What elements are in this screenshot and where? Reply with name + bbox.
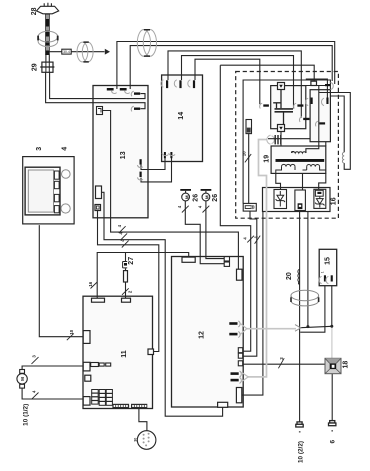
diode symbol left	[276, 191, 285, 207]
top pin box B with dot	[311, 81, 317, 85]
svg-text:30-4: 30-4	[63, 50, 70, 54]
fuse box	[243, 203, 256, 211]
injector 26 A	[180, 189, 191, 201]
slash and label 4 near box12	[247, 236, 254, 243]
wire transformer out to right diode	[319, 173, 326, 189]
ground 6	[329, 421, 336, 426]
MOSFET lower-right pin bar	[299, 117, 309, 122]
svg-text:18: 18	[342, 361, 349, 369]
transformer box 19	[271, 146, 326, 173]
box11 left pin 3	[83, 397, 90, 406]
svg-text:M: M	[184, 195, 189, 199]
slash and label 4 injector A	[182, 206, 189, 213]
box 11 (ECU)	[83, 296, 153, 408]
svg-text:16: 16	[331, 197, 338, 205]
wire choke horizontal to right inner box	[268, 138, 310, 140]
mid box pin element	[298, 203, 303, 209]
box 13 (control unit)	[93, 86, 148, 218]
MOSFET box U	[271, 86, 306, 129]
wire box13 right pin1 to box14 bottom pin1	[141, 158, 165, 170]
slash and label 2 on resistor wire	[122, 288, 129, 295]
svg-text:11: 11	[121, 350, 128, 358]
diode box mid	[295, 190, 306, 211]
box11 interior 3-rect row	[91, 363, 111, 367]
pin arc C	[325, 83, 333, 90]
box13 small square pin	[95, 205, 101, 211]
svg-text:13: 13	[120, 151, 127, 159]
box11 left tall pin	[83, 331, 90, 344]
MOSFET top pin box with dot	[278, 83, 285, 90]
box11 right pin	[148, 349, 154, 355]
wire cluster to box11 left pin	[39, 225, 83, 337]
svg-text:4: 4	[62, 147, 69, 151]
box14 bottom pin bars	[162, 152, 175, 158]
HT cable striped rod	[45, 14, 50, 55]
box15 pins	[319, 275, 333, 283]
diagnostic connector circle	[137, 431, 156, 450]
box13 pin P4	[131, 106, 140, 111]
wire rectifier output to junction dot	[307, 212, 309, 327]
wire box11 strip to diagnostic connector	[139, 409, 147, 431]
wire bus L3	[168, 51, 301, 118]
box13 pin P3	[131, 91, 140, 96]
wire box11 to pump upper	[22, 366, 83, 370]
slash labels on box13 bottom wires	[119, 226, 129, 247]
box13 right pin R2	[137, 172, 143, 180]
right inner box interior pin	[316, 121, 326, 126]
svg-text:27: 27	[128, 257, 135, 265]
gray junction arrow	[295, 325, 301, 332]
grommet B	[137, 30, 156, 57]
svg-text:3: 3	[36, 147, 43, 151]
wire box12 tall pin up to rectifier corner	[242, 212, 263, 396]
svg-text:M: M	[205, 195, 210, 199]
svg-text:16: 16	[88, 281, 93, 286]
damper 18	[325, 358, 341, 373]
wire damper 18 to ground 6	[331, 374, 333, 421]
ground mark dot	[331, 430, 333, 432]
wire bus L1	[117, 42, 335, 90]
box11 left pin 2	[83, 362, 90, 371]
wire bus L5	[195, 59, 260, 104]
wire MOSFET bottom pin to transformer primary	[280, 132, 282, 147]
right inner box top pins	[306, 98, 329, 106]
wire trigger connector to fuse	[248, 134, 250, 204]
slash and label 4 injector B	[203, 206, 210, 213]
gray arrow from lower pins	[242, 372, 249, 381]
box12 right mid pin bars	[229, 321, 240, 338]
box 14	[162, 75, 203, 162]
box13 pin P1	[107, 88, 117, 93]
box12 top-right pin boxes	[224, 257, 229, 267]
MOSFET left pin	[260, 103, 269, 108]
svg-text:1: 1	[320, 271, 324, 273]
inner solid box of 16	[243, 80, 330, 203]
box13 pin P2	[120, 88, 130, 93]
svg-text:10: 10	[69, 329, 74, 334]
right inner box	[310, 90, 330, 142]
junction dot A	[306, 325, 309, 328]
wire junction thin link	[300, 326, 331, 327]
wire right inner box to transformer	[325, 142, 327, 146]
connector 29	[40, 62, 54, 72]
inline connector arcs	[267, 135, 274, 144]
wire antenna upper loop	[319, 93, 351, 170]
slash and label 3 on damper wire	[278, 358, 284, 368]
instrument cluster 3/4 box	[23, 157, 74, 224]
slash and label 10 on cluster wire	[67, 333, 74, 340]
dashed box 16	[236, 72, 339, 219]
transformer core	[276, 159, 325, 162]
box11 top pin boxes	[92, 298, 131, 302]
box13 tall pin box	[96, 186, 102, 199]
wire 29 left lead to box13 pin P4	[46, 72, 145, 108]
diagnostic connector dots	[143, 433, 150, 447]
box14 top pin bars	[161, 80, 195, 88]
wire HT branch with arrow	[50, 51, 105, 53]
right diode top pin box	[315, 190, 323, 196]
wire box12 pin sq3 to damper 18	[242, 363, 325, 365]
wire bus L4	[182, 56, 294, 109]
slash and label 4 on pump wire	[32, 393, 39, 400]
svg-text:M: M	[20, 377, 26, 381]
wire branch left to box11 pin1 and resistor 27	[97, 253, 165, 299]
transformer primary stubs	[292, 152, 306, 154]
svg-text:14: 14	[178, 112, 185, 120]
wire box15 left pin down-left	[300, 286, 325, 333]
wire antenna lower feed	[330, 96, 344, 152]
box 12	[172, 257, 244, 408]
spark plug 28	[37, 3, 59, 14]
slash and label 3 on pump wire	[32, 357, 39, 364]
MOSFET symbol	[273, 90, 293, 124]
slash and label 1 near box12	[255, 236, 261, 244]
wire fuse to box12 pin sq2	[242, 211, 257, 356]
fuse element	[245, 206, 254, 209]
svg-text:28: 28	[31, 7, 38, 15]
cluster buttons	[54, 171, 59, 213]
slash and label pin16 on box11 wire	[91, 282, 98, 289]
box12 bottom pin box	[218, 402, 228, 407]
wire spark plug leads to connector 29	[46, 55, 49, 63]
box 15	[319, 249, 337, 285]
svg-text:10 (2/2): 10 (2/2)	[297, 441, 304, 463]
diode box left	[274, 190, 287, 209]
box13 interior square pin	[97, 107, 103, 115]
svg-text:19: 19	[264, 155, 271, 163]
svg-text:29: 29	[32, 63, 39, 71]
box12 top pin Pa	[182, 257, 195, 262]
grommet A	[77, 42, 93, 62]
wire rectifier output to ground 10-2	[299, 212, 301, 422]
svg-text:15: 15	[325, 257, 332, 265]
antenna coil	[342, 152, 344, 163]
svg-text:6: 6	[330, 439, 337, 443]
diode box right	[314, 189, 326, 208]
box11 interior square	[85, 375, 91, 381]
rectifier assembly box	[263, 188, 331, 212]
transformer secondary stubs	[276, 167, 326, 174]
wire injector M1 to box12 top pin	[185, 201, 224, 264]
box12 right-top vertical pin box	[237, 269, 243, 280]
transformer secondary right	[307, 164, 320, 166]
svg-text:10 (1/2): 10 (1/2)	[22, 404, 29, 426]
ferrite ring cylinder	[291, 290, 319, 306]
wire box13 right pin2 to box14 bottom pin2	[141, 158, 172, 182]
MOSFET bottom pin box with dot	[278, 125, 285, 132]
fuel pump motor 10	[17, 370, 27, 389]
gray wire from box12 lower pins up to igniter	[248, 140, 267, 377]
wire box15 right pin to junction dot	[331, 286, 333, 327]
box11 DIP grid	[92, 390, 113, 406]
svg-text:26: 26	[212, 194, 219, 202]
MOSFET right pin bar	[294, 103, 304, 108]
wire bus L2	[130, 46, 332, 89]
cluster knobs	[61, 170, 70, 213]
diode symbol right	[315, 197, 324, 208]
svg-text:12: 12	[199, 331, 206, 339]
wire 29 right lead to box13 pin P3	[50, 72, 145, 98]
wire bus L6 horizontal	[220, 65, 314, 83]
choke hatch	[275, 135, 281, 144]
coil 20	[298, 269, 300, 284]
box11 connector strips	[112, 404, 147, 408]
resistor 27 connector bracket	[123, 262, 128, 268]
gray arrow from mid pins	[241, 324, 247, 335]
gray wire harness from box12 mid pins	[247, 140, 332, 377]
wire injector M2 to box12 top pin	[206, 201, 225, 259]
wire branch to box12 pin Pa	[165, 253, 189, 258]
junction dot B	[330, 325, 333, 328]
wire transformer out to mid diode	[302, 173, 304, 190]
wire box13 interior pin to box12 right-top pin box	[103, 111, 239, 270]
box13 right pin R1	[137, 159, 143, 167]
svg-text:10: 10	[241, 151, 246, 156]
svg-text:20: 20	[286, 272, 293, 280]
wire MOSFET pin links	[285, 86, 326, 93]
box12 right square pins sq1 sq2 sq3	[238, 348, 242, 366]
transformer secondary left	[282, 164, 296, 166]
slash and label 1.0 on trigger wire	[245, 154, 251, 162]
box12 right lower pin bars	[231, 371, 242, 383]
wire box13 square pin to box11 right pin	[98, 211, 159, 352]
resistor 27 body	[124, 271, 128, 282]
ground 10 (2/2)	[296, 422, 303, 427]
wire primary right feed	[306, 93, 319, 152]
ignition coil cylinder on plug	[38, 31, 58, 46]
wire long route to box12 pin sq1	[220, 65, 250, 351]
wire resistor 27 drop	[125, 253, 127, 299]
wire transformer out to left diode	[276, 173, 281, 189]
svg-text:30: 30	[133, 438, 137, 442]
arrow direction	[105, 49, 110, 55]
tall pin box (trigger connector)	[246, 120, 252, 134]
injector 26 B	[201, 189, 212, 201]
svg-text:26: 26	[193, 194, 200, 202]
ground mark dot	[299, 431, 301, 433]
wire code label box 30-4	[62, 49, 71, 54]
wire box13 tall pin to box12 bottom pin	[102, 192, 223, 416]
box12 bottom-right tall pin box	[236, 388, 241, 403]
transformer primary coil	[292, 152, 306, 153]
wire pump lower to box11	[22, 388, 83, 399]
gray wire box15 to damper 18	[331, 326, 333, 358]
